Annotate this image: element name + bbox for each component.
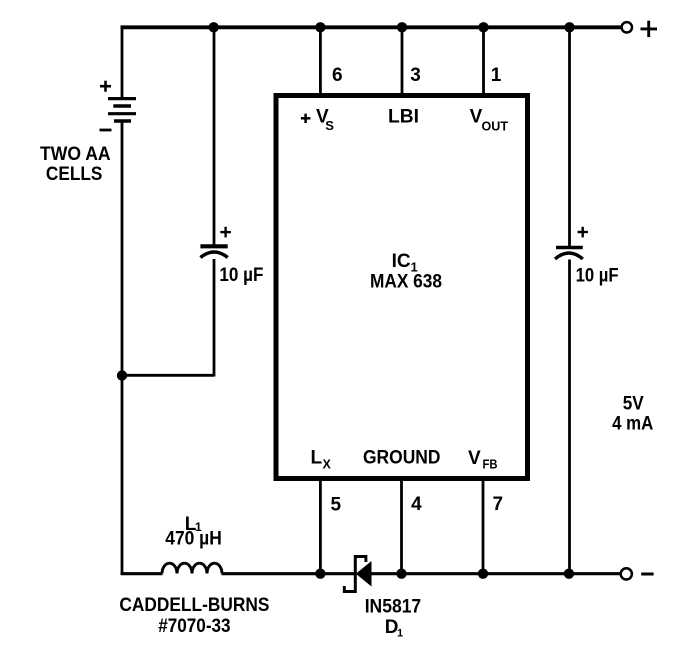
- diode D1 IN5817 schottky: [344, 555, 371, 593]
- wire capacitor C2 branch: [568, 26, 571, 576]
- capacitor C1 plus label: [220, 227, 231, 238]
- svg-text:5V: 5V: [623, 394, 644, 415]
- svg-text:5: 5: [331, 495, 342, 516]
- wire pin 4: [400, 480, 403, 575]
- label L1: [185, 514, 202, 535]
- pin label Lx: [311, 448, 332, 472]
- wire pin 6: [319, 26, 322, 95]
- svg-text:6: 6: [332, 65, 343, 86]
- wire bottom rail right: [369, 572, 621, 575]
- svg-text:4 mA: 4 mA: [612, 414, 653, 435]
- wire left vertical (battery branch): [121, 26, 124, 576]
- wire pin 5: [319, 480, 322, 575]
- svg-text:S: S: [325, 118, 334, 133]
- wire top rail: [121, 25, 622, 29]
- node junction top C1: [209, 22, 219, 32]
- node junction pin5/bottom rail: [315, 569, 325, 579]
- node junction pin6/top rail: [315, 22, 325, 32]
- label D1: [385, 617, 403, 639]
- output terminal minus: [621, 568, 632, 579]
- wire pin 7: [482, 480, 485, 575]
- battery B1 TWO AA CELLS: [108, 99, 136, 121]
- svg-text:1: 1: [491, 65, 502, 86]
- svg-text:V: V: [468, 448, 481, 469]
- svg-text:10 µF: 10 µF: [576, 266, 619, 287]
- svg-text:IN5817: IN5817: [365, 596, 422, 617]
- svg-text:3: 3: [410, 65, 421, 86]
- node junction battery/C1: [117, 370, 127, 380]
- node junction pin4/bottom rail: [396, 569, 406, 579]
- node junction C2/top rail: [564, 22, 574, 32]
- svg-text:CADDELL-BURNS: CADDELL-BURNS: [119, 595, 269, 616]
- capacitor C2 plus label: [578, 227, 588, 238]
- pin label Vout: [470, 107, 508, 134]
- svg-text:X: X: [323, 457, 332, 471]
- inductor L1 470uH: [162, 563, 222, 573]
- wire pin 3: [401, 26, 404, 95]
- svg-text:7: 7: [493, 494, 504, 515]
- svg-text:TWO AA: TWO AA: [40, 144, 111, 165]
- svg-text:CELLS: CELLS: [46, 164, 103, 185]
- pin label Vfb: [468, 448, 498, 472]
- svg-text:LBI: LBI: [388, 107, 419, 128]
- wire capacitor C1 branch: [121, 26, 214, 377]
- label IC1: [392, 251, 418, 275]
- battery minus label: [100, 129, 112, 132]
- capacitor C2 10uF: [555, 248, 583, 260]
- node junction pin7/bottom rail: [478, 569, 488, 579]
- svg-text:1: 1: [397, 627, 403, 639]
- capacitor C1 10uF: [200, 246, 227, 257]
- svg-text:GROUND: GROUND: [363, 448, 441, 469]
- op-amp IC1 MAX638 box: [276, 96, 528, 479]
- svg-text:4: 4: [411, 494, 422, 515]
- svg-text:OUT: OUT: [482, 118, 509, 133]
- wire pin 1: [482, 26, 485, 95]
- svg-text:FB: FB: [483, 458, 498, 472]
- node junction C2/bottom rail: [564, 569, 574, 579]
- wire bottom rail mid: [222, 572, 355, 575]
- label minus: [641, 573, 653, 576]
- label TWO AA CELLS: [40, 144, 111, 185]
- svg-text:#7070-33: #7070-33: [158, 616, 230, 637]
- label plus: [641, 21, 658, 37]
- node junction pin3/top rail: [397, 22, 407, 32]
- label output 5V 4mA: [612, 394, 653, 435]
- svg-text:MAX 638: MAX 638: [370, 272, 442, 293]
- svg-text:470 µH: 470 µH: [165, 529, 222, 550]
- output terminal plus: [622, 22, 632, 32]
- pin label +Vs: [301, 107, 334, 134]
- battery plus label: [100, 81, 111, 92]
- svg-text:10 µF: 10 µF: [219, 265, 263, 286]
- node junction pin1/top rail: [478, 22, 488, 32]
- wire bottom rail left: [121, 572, 163, 575]
- svg-text:L: L: [311, 448, 323, 469]
- svg-text:IC: IC: [392, 251, 411, 272]
